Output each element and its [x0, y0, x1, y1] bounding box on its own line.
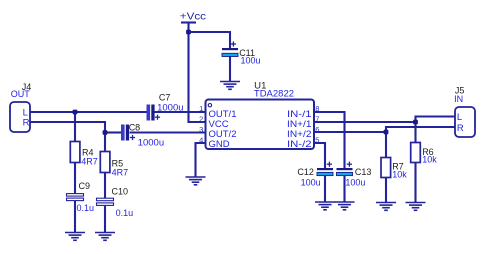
svg-text:4R7: 4R7 — [81, 157, 98, 167]
svg-text:100u: 100u — [301, 178, 321, 188]
svg-text:C8: C8 — [129, 122, 141, 132]
svg-text:C9: C9 — [79, 181, 91, 191]
svg-text:L: L — [23, 107, 28, 118]
svg-text:0.1u: 0.1u — [77, 203, 95, 213]
svg-text:8: 8 — [315, 104, 319, 113]
svg-text:L: L — [457, 112, 462, 123]
svg-text:5: 5 — [315, 136, 319, 145]
svg-text:C10: C10 — [112, 187, 129, 197]
svg-text:1000u: 1000u — [138, 138, 164, 149]
svg-text:1: 1 — [199, 104, 203, 113]
svg-text:IN: IN — [454, 94, 463, 104]
svg-text:C13: C13 — [355, 167, 372, 177]
svg-text:C12: C12 — [297, 167, 314, 177]
svg-text:2: 2 — [199, 115, 203, 124]
svg-text:R: R — [23, 118, 30, 129]
svg-text:7: 7 — [315, 115, 319, 124]
svg-text:10k: 10k — [422, 155, 437, 165]
svg-text:TDA2822: TDA2822 — [254, 89, 294, 100]
svg-text:100u: 100u — [241, 56, 261, 66]
svg-text:4: 4 — [199, 136, 203, 145]
svg-text:6: 6 — [315, 125, 319, 134]
svg-text:GND: GND — [209, 139, 230, 150]
svg-text:IN-/2: IN-/2 — [287, 139, 312, 150]
svg-text:0.1u: 0.1u — [116, 208, 134, 218]
svg-text:100u: 100u — [345, 178, 365, 188]
svg-text:4R7: 4R7 — [112, 168, 129, 178]
svg-text:3: 3 — [199, 125, 203, 134]
svg-text:R: R — [457, 123, 464, 134]
svg-text:C7: C7 — [159, 92, 171, 102]
svg-text:1000u: 1000u — [157, 102, 183, 113]
svg-text:+Vcc: +Vcc — [180, 11, 206, 23]
svg-text:10k: 10k — [392, 169, 407, 179]
svg-text:OUT: OUT — [11, 89, 31, 99]
